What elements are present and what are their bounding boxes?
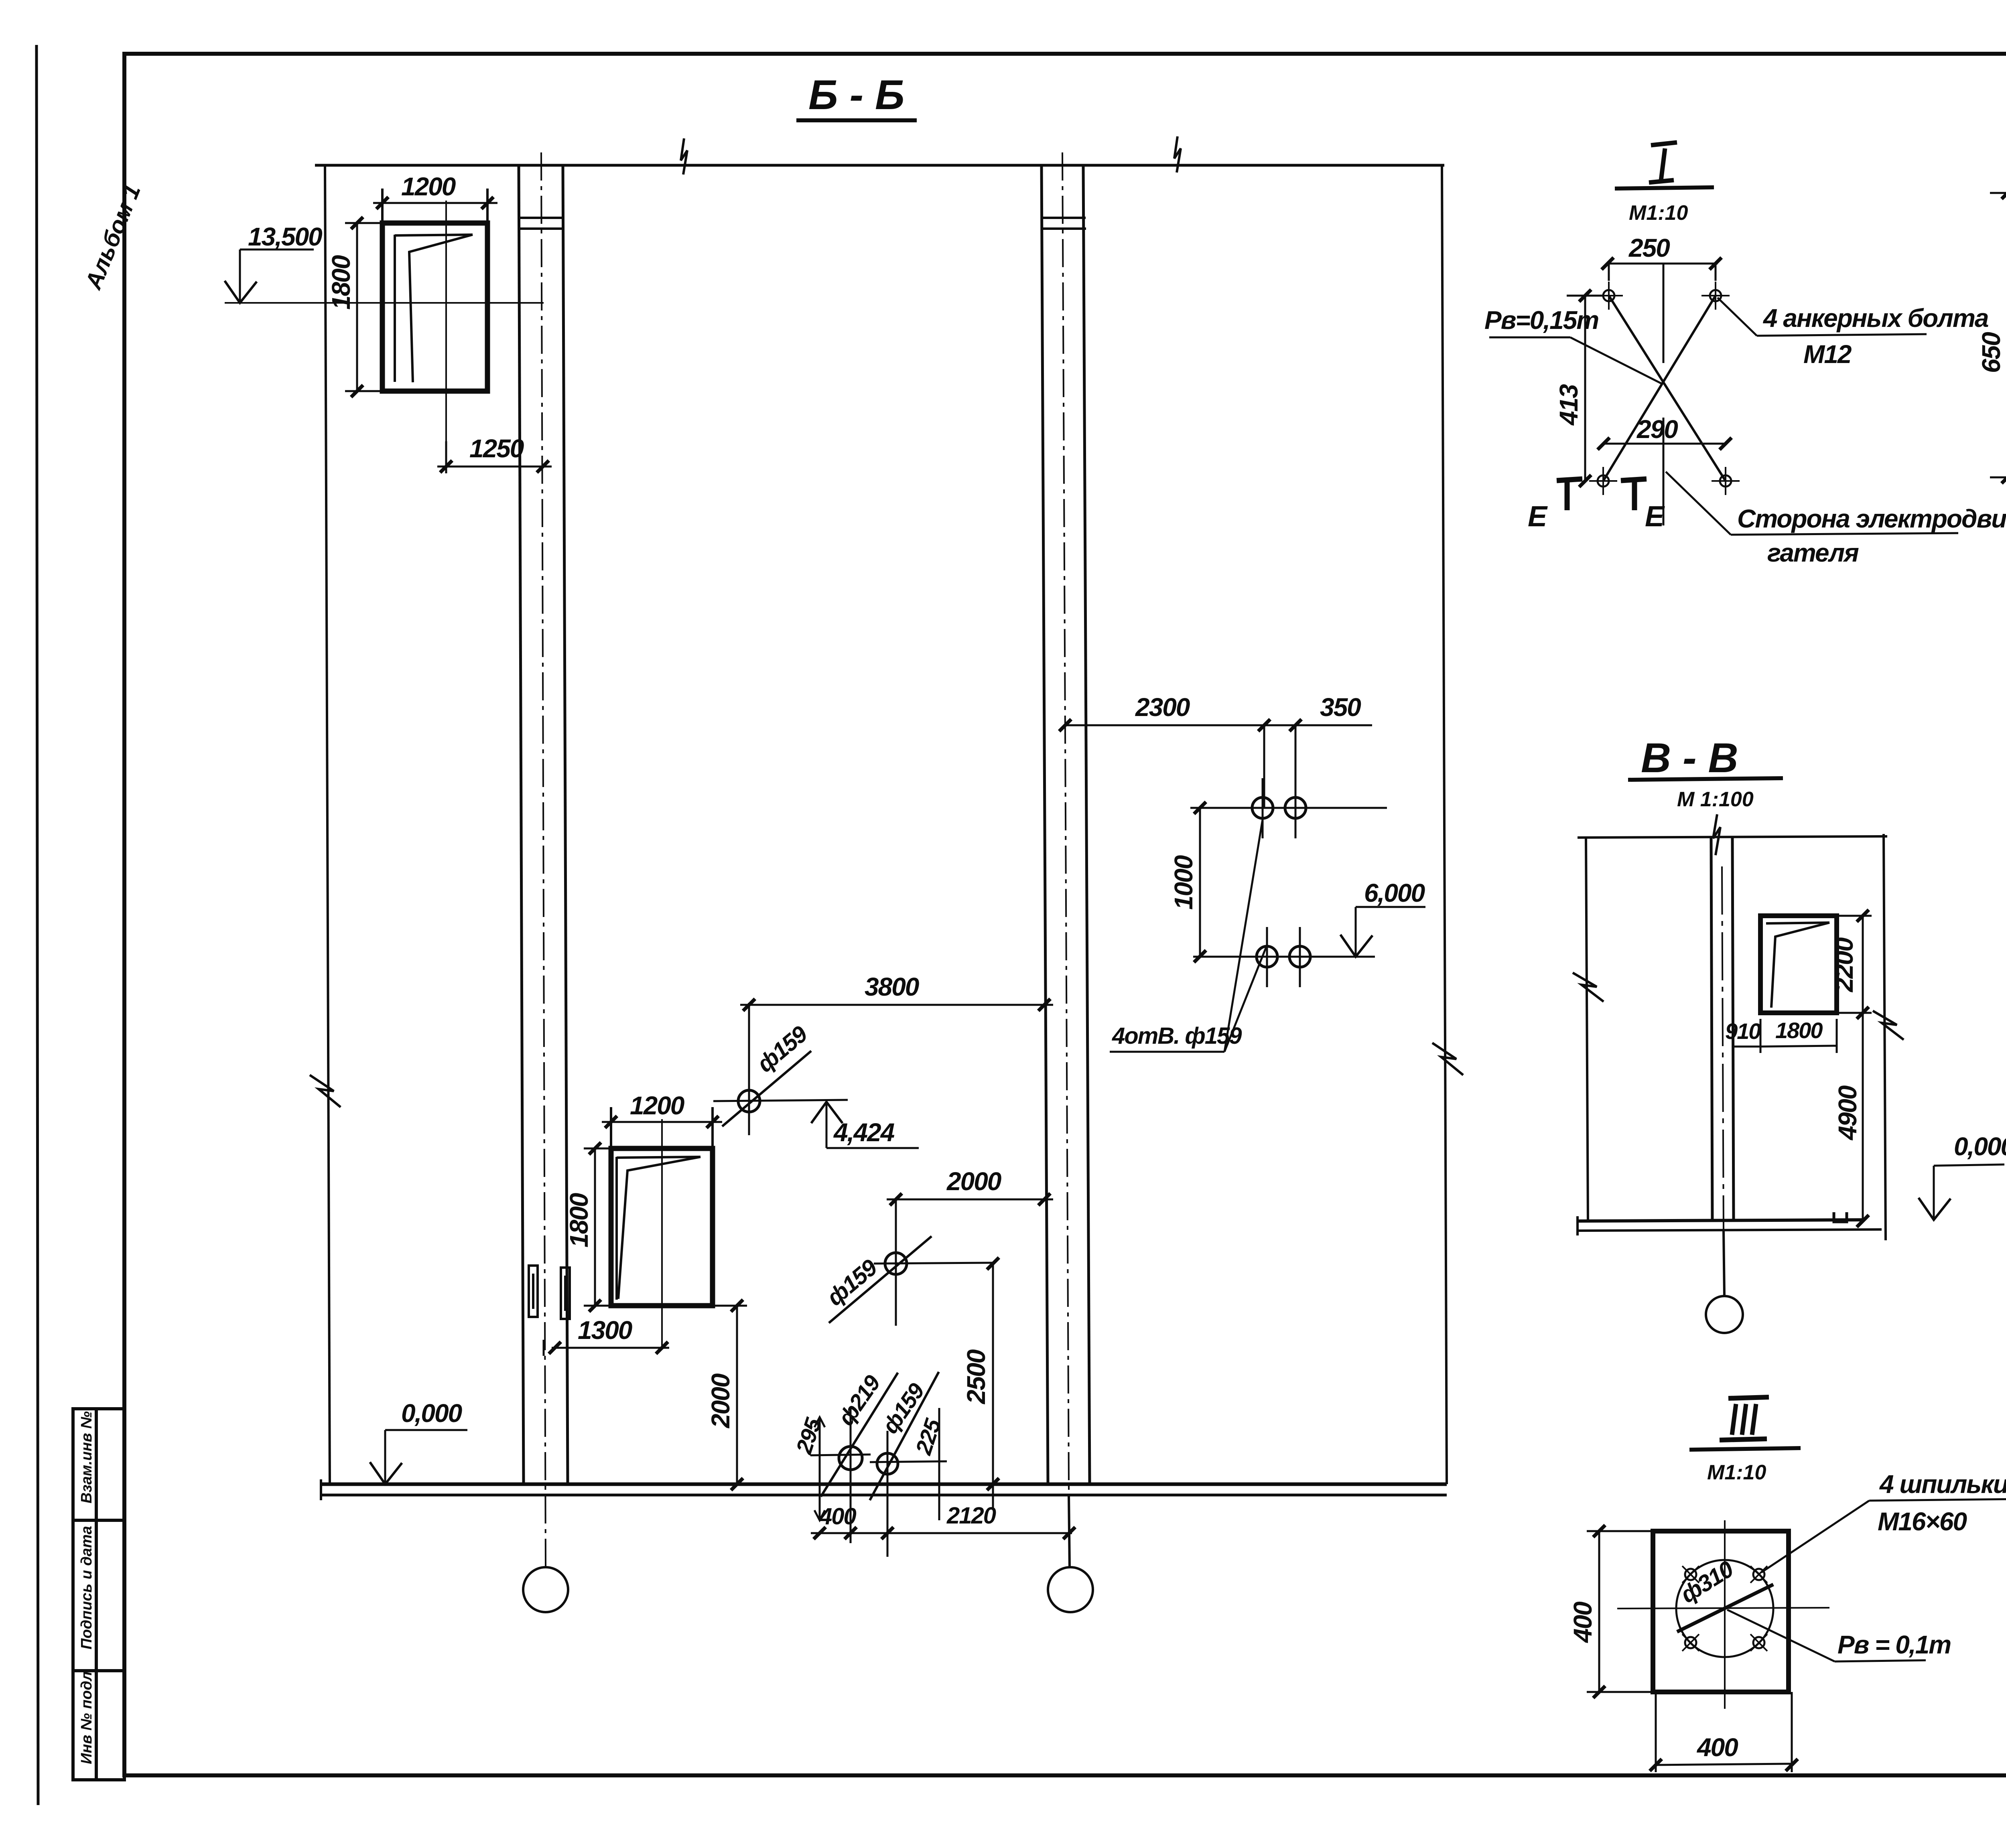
svg-text:4отВ. ф159: 4отВ. ф159 [1112, 1023, 1242, 1049]
svg-text:Рв=0,15т: Рв=0,15т [1484, 306, 1598, 335]
svg-text:1000: 1000 [1169, 855, 1198, 910]
break mark left [1573, 973, 1604, 1002]
svg-text:910: 910 [1725, 1018, 1761, 1044]
equipment 2 flag [618, 1157, 700, 1299]
floor line upper [321, 1483, 1447, 1486]
column 1 top ticks [519, 217, 563, 219]
pipe C vertical [850, 1408, 852, 1543]
stamp label 3 [78, 1672, 95, 1764]
break mark top line 2 [1174, 136, 1181, 172]
svg-text:2000: 2000 [706, 1373, 735, 1428]
equipment rect V-V [1760, 916, 1837, 1013]
svg-text:1200: 1200 [401, 172, 456, 201]
anchor pocket symbol [1834, 1212, 1847, 1222]
title V-V [1641, 735, 1738, 781]
svg-text:1800: 1800 [327, 255, 355, 310]
equipment 1 inner left line [394, 235, 396, 382]
dim 1300 [543, 1340, 545, 1356]
right wall [1884, 834, 1886, 1240]
svg-text:М 1:100: М 1:100 [1677, 788, 1754, 811]
svg-text:413: 413 [1554, 384, 1583, 426]
column axis circle 1 [523, 1567, 568, 1612]
label f310 [1676, 1556, 1738, 1608]
dim 1800 eq2 [594, 1148, 596, 1306]
dim 2000 eq2 bottom [736, 1306, 738, 1484]
stud top-right [1750, 1566, 1767, 1583]
equipment 2 centerline [661, 1119, 663, 1348]
stamp box left [73, 1409, 124, 1780]
top line [1578, 836, 1887, 838]
stud bottom-right [1750, 1634, 1767, 1651]
equipment 1 centerline [445, 201, 447, 467]
stud top-left [1682, 1566, 1699, 1583]
break mark left wall [310, 1075, 341, 1107]
floor left end tick [320, 1479, 322, 1500]
equipment 1 inner top line [395, 235, 473, 235]
svg-text:М16×60: М16×60 [1878, 1507, 1967, 1536]
left wall line [325, 165, 330, 1484]
column centerline [1722, 866, 1724, 1231]
svg-text:350: 350 [1320, 693, 1361, 722]
bolt extension verticals [1263, 725, 1265, 808]
section mark E right [1621, 479, 1647, 510]
svg-text:Взам.инв №: Взам.инв № [78, 1411, 95, 1503]
pipe B diag leader [829, 1236, 932, 1323]
plate centerline vertical [1724, 1520, 1726, 1709]
dim 1200 top: extension lines [381, 189, 384, 223]
equipment inner top [1766, 923, 1829, 923]
axis circle V-V [1706, 1296, 1743, 1333]
label Pb=0,15t [1484, 306, 1598, 335]
column 1 base plate right [561, 1268, 570, 1319]
svg-text:1250: 1250 [469, 434, 524, 463]
svg-text:1200: 1200 [630, 1091, 684, 1120]
label 4otv f159 [1112, 1023, 1242, 1049]
plate centerline horizontal [1617, 1608, 1829, 1609]
column 2 top ticks [1042, 217, 1086, 219]
dim 250 [1628, 233, 1670, 262]
axis line down [1724, 1231, 1724, 1296]
anchor bolt top-left [1595, 282, 1623, 310]
pipe D diag leader [870, 1372, 939, 1500]
title B-B [808, 72, 905, 118]
equipment 2 inner top line [617, 1157, 700, 1158]
pipe A diag leader [722, 1051, 811, 1126]
pipe circle B f159 [885, 1253, 907, 1274]
svg-text:6,000: 6,000 [1364, 878, 1425, 907]
dim 1200 line [373, 202, 497, 204]
equipment 2 inner left line [615, 1157, 618, 1300]
stamp label 1 [78, 1411, 95, 1503]
dim 1200 eq2: extensions [610, 1107, 612, 1148]
svg-text:1800: 1800 [564, 1193, 593, 1248]
svg-text:Е: Е [1528, 501, 1548, 533]
axis line to circle 2 [1069, 1495, 1070, 1567]
svg-text:250: 250 [1628, 233, 1670, 262]
equipment rect 1 [382, 223, 487, 391]
svg-text:Е: Е [1645, 501, 1665, 533]
column 2 right line [1083, 165, 1090, 1484]
svg-text:650: 650 [1977, 332, 2006, 373]
pipe circle C f219 [839, 1446, 862, 1470]
svg-text:Инв № подл: Инв № подл [78, 1672, 95, 1764]
pipe B vertical [895, 1199, 897, 1326]
level mark 0,000 [401, 1399, 462, 1428]
break mark top line 1 [681, 138, 687, 174]
title III bars [1728, 1397, 1769, 1398]
svg-text:400: 400 [1696, 1733, 1738, 1762]
label Pb=0,1t [1837, 1630, 1951, 1659]
svg-text:В - В: В - В [1641, 735, 1738, 781]
svg-text:4 шпильки: 4 шпильки [1879, 1470, 2006, 1499]
column line right [1732, 838, 1734, 1221]
paper edge line left [37, 45, 38, 1805]
svg-text:400: 400 [1568, 1602, 1597, 1643]
equipment 1 flag [409, 235, 473, 382]
dim 290 [1636, 415, 1678, 444]
equipment rect 2 [611, 1148, 713, 1306]
title I [1649, 142, 1677, 183]
svg-text:гателя: гателя [1767, 538, 1859, 567]
pipe B axis horizontal [874, 1263, 993, 1264]
dim 413 [1584, 296, 1586, 481]
pipe circle A f159 [738, 1090, 760, 1112]
svg-text:2500: 2500 [962, 1349, 991, 1404]
svg-text:Сторона электродви-: Сторона электродви- [1737, 504, 2006, 533]
bolt circle f310 [1676, 1560, 1773, 1657]
label 4 shpilki M16x60 [1879, 1470, 2006, 1499]
svg-text:13,500: 13,500 [248, 222, 322, 251]
dim 3800 [740, 1004, 1053, 1006]
bolt pair 2 [1257, 946, 1277, 967]
svg-text:2300: 2300 [1135, 693, 1190, 722]
dim 2500 [992, 1264, 994, 1509]
svg-text:2120: 2120 [946, 1503, 996, 1529]
right wall line [1442, 165, 1447, 1484]
svg-text:Рв = 0,1т: Рв = 0,1т [1837, 1630, 1951, 1659]
centerline vertical [1663, 264, 1665, 363]
svg-text:М1:10: М1:10 [1629, 201, 1688, 225]
svg-text:4 анкерных болта: 4 анкерных болта [1762, 304, 1988, 333]
plate square [1653, 1531, 1789, 1692]
level line 13,500 [225, 302, 544, 304]
pipe circle D f159 [877, 1453, 898, 1474]
level mark 13,500 [248, 222, 322, 251]
dim 2000 pipeB [887, 1199, 1053, 1201]
svg-text:4900: 4900 [1833, 1085, 1862, 1141]
pipe C horizontal [810, 1454, 871, 1455]
column axis circle 2 [1048, 1567, 1093, 1612]
svg-text:2000: 2000 [946, 1167, 1001, 1196]
column 1 centerline [541, 152, 546, 1566]
column 1 left line [519, 165, 524, 1484]
label 4 ankernyh bolta M12 [1762, 304, 1988, 333]
level mark 4,424 [811, 1102, 843, 1123]
svg-text:4,424: 4,424 [833, 1118, 895, 1147]
svg-text:М12: М12 [1803, 340, 1852, 369]
floor line upper V-V [1578, 1220, 1864, 1221]
floor left tick [1576, 1216, 1579, 1235]
svg-text:1300: 1300 [578, 1316, 632, 1345]
floor line lower V-V [1578, 1229, 1882, 1231]
break mark on column top [1713, 814, 1720, 855]
dim line 400/2120 [811, 1532, 1072, 1534]
anchor bolt top-right [1701, 282, 1730, 310]
section mark E left [1528, 501, 1548, 533]
level 0,000 V-V [1954, 1132, 2006, 1161]
dim 400 bottom [1656, 1764, 1792, 1765]
thick radius line [1677, 1584, 1773, 1632]
column line left [1711, 838, 1712, 1221]
top ceiling line [315, 164, 1444, 167]
column 2 centerline [1062, 152, 1069, 1566]
svg-text:400: 400 [819, 1503, 857, 1530]
column 2 left line [1042, 165, 1048, 1484]
break mark right [1873, 1011, 1904, 1040]
column 1 right line [563, 165, 568, 1484]
dim 910 / 1800 [1732, 1046, 1760, 1048]
svg-text:0,000: 0,000 [1954, 1132, 2006, 1161]
stamp label 2 [78, 1526, 95, 1649]
pipe A axis horizontal [713, 1100, 848, 1101]
pipe D vertical [887, 1431, 889, 1557]
dim 295 vertical [819, 1417, 821, 1520]
floor line lower [321, 1494, 1447, 1497]
dim 400 left [1598, 1531, 1600, 1692]
level mark 6,000 [1364, 878, 1425, 907]
stud bottom-left [1682, 1634, 1699, 1651]
dim 1800 left: line [356, 223, 358, 391]
svg-text:290: 290 [1636, 415, 1678, 444]
svg-text:1800: 1800 [1775, 1018, 1823, 1043]
dim 1250 below [445, 441, 447, 473]
svg-text:3800: 3800 [865, 972, 919, 1001]
bolt pair 1 [1252, 797, 1273, 818]
svg-text:Подпись и дата: Подпись и дата [78, 1526, 95, 1649]
svg-text:0,000: 0,000 [401, 1399, 462, 1428]
left wall [1586, 838, 1588, 1221]
dim 225 vertical [938, 1408, 940, 1520]
X cross lines [1609, 296, 1726, 481]
dim 4900 [1862, 1013, 1864, 1221]
dim 2300 / 350 top [1065, 724, 1372, 726]
album label [80, 181, 146, 294]
equipment flag [1771, 923, 1829, 1008]
column 1 base plate left [529, 1266, 538, 1317]
pipe D horizontal [870, 1461, 947, 1462]
dim 1000 [1199, 808, 1201, 956]
label storona elektrodvigatelya I [1737, 504, 2006, 533]
pipe C diag leader [821, 1373, 898, 1497]
dim 2200 [1862, 916, 1864, 1013]
anchor bolt bottom-left [1589, 467, 1617, 495]
break mark right wall [1432, 1043, 1463, 1075]
svg-text:Б - Б: Б - Б [808, 72, 905, 118]
pipe A vertical [748, 1003, 750, 1135]
svg-text:2200: 2200 [1829, 937, 1858, 992]
svg-text:М1:10: М1:10 [1707, 1461, 1766, 1484]
anchor bolt bottom-right [1712, 467, 1740, 495]
